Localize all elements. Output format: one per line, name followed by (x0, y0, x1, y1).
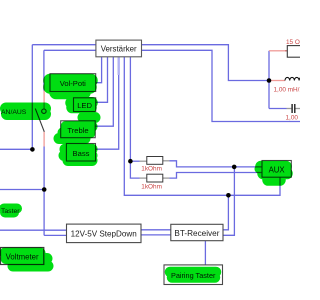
highlight Treble (59, 118, 95, 139)
pin stub capacitor left gray (287, 108, 292, 110)
module Voltmeter box (1, 248, 44, 265)
pin stub 15 Ohm resistor (285, 50, 287, 52)
wire Verstärker right pin2 to speaker line (142, 50, 301, 121)
pin stub R2 left gray (140, 177, 147, 179)
wire Verstärker pin-b to LED (96, 57, 108, 103)
svg-text:Verstärker: Verstärker (101, 45, 137, 54)
wire R2 to AUX lower pin (170, 173, 263, 179)
green highlighter annotations (4, 81, 287, 278)
wire to StepDown left pin2 (44, 234, 66, 236)
svg-text:12V-5V StepDown: 12V-5V StepDown (71, 230, 137, 239)
svg-text:1kOhm: 1kOhm (141, 166, 162, 173)
wire switch to StepDown vertical (43, 147, 45, 236)
wire node stub left at y149 (0, 148, 32, 150)
node A junction dot (32,149) (30, 147, 35, 152)
wire R1 to AUX upper pin (170, 161, 263, 167)
highlight Bass (64, 149, 92, 160)
highlight AUX (261, 167, 287, 181)
module BT-Receiver box (171, 224, 223, 240)
wire node down to R2 left (130, 161, 139, 178)
wire Verstärker pin-d to Bass (96, 57, 119, 149)
svg-text:15 Ohm: 15 Ohm (286, 39, 300, 46)
wire crossover vertical bus (268, 51, 270, 109)
highlight Taster (4, 209, 17, 213)
pin stub R1 left gray (140, 160, 147, 162)
pin stub R2 right gray (163, 177, 170, 179)
capacitor C1 1,00 µF (286, 104, 308, 121)
highlight AN/AUS (6, 109, 45, 115)
module 12V-5V StepDown box (67, 224, 142, 243)
node F junction dot crossover (269,80) (267, 78, 272, 83)
op-amp U1 Verstärker box (96, 40, 142, 57)
highlight Pairing Taster (170, 272, 216, 278)
wire Verstärker left pin1 horizontal (32, 44, 96, 46)
potentiometer Bass box (66, 144, 95, 162)
wire StepDown to BT-Receiver upper (141, 229, 171, 231)
highlight Voltmeter (5, 253, 48, 266)
wire to capacitor (269, 108, 287, 110)
wire red to 15 Ohm resistor (269, 50, 285, 52)
wire Verstärker pin-c to Treble (95, 57, 113, 126)
resistor R2 1kOhm (141, 174, 163, 190)
svg-text:1,00 mH/1: 1,00 mH/1 (274, 87, 301, 94)
wire Verstärker pin-a to Vol-Poti right (96, 57, 102, 83)
node C junction dot resistors (130,161) (128, 159, 133, 164)
switch S1 AN/AUS (35, 109, 46, 132)
inductor L1 1,00 mH (274, 77, 304, 93)
highlight LED (71, 103, 92, 108)
wire node to R1 left (130, 160, 139, 162)
wire Verstärker pin-f to resistors (129, 57, 131, 161)
node E junction dot AUX line (234,167) (232, 165, 237, 170)
svg-text:1kOhm: 1kOhm (141, 184, 162, 191)
wire red to inductor (271, 80, 285, 82)
wire red switch bottom segment (43, 132, 45, 147)
potentiometer Treble box (61, 121, 95, 138)
resistor R1 1kOhm (141, 157, 163, 173)
svg-text:1,00 µF: 1,00 µF (286, 114, 301, 121)
wire StepDown to BT-Receiver lower (141, 234, 171, 236)
resistor R3 15 Ohm (286, 39, 309, 57)
module AUX box (262, 161, 291, 178)
potentiometer Vol-Poti box (50, 74, 96, 92)
highlight Vol-Poti (50, 81, 91, 93)
wire BT-Receiver to Pairing Taster (204, 241, 206, 265)
wire rail branch down to BT right pin1 (223, 195, 228, 230)
button Pairing Taster box (164, 265, 223, 285)
pin stub capacitor right gray (295, 108, 300, 110)
wire Taster horizontal (0, 189, 44, 191)
wire Verstärker pin-e bottom rail to AUX (124, 57, 280, 196)
wire Verstärker right pin1 to crossover (142, 45, 270, 81)
svg-text:BT-Receiver: BT-Receiver (174, 229, 219, 238)
node B junction dot Taster (44,190) (42, 187, 47, 192)
wire pale overlay near Verstärker pin-d (117, 57, 119, 75)
wire AUX line branch down to BT right pin2 (223, 167, 234, 235)
pin stub R1 right gray (163, 160, 170, 162)
node D junction dot rail (228,195) (226, 193, 231, 198)
wire StepDown left pin1 from edge (0, 229, 67, 231)
wire left pin1 vertical down (31, 45, 33, 150)
LED D1 box (74, 98, 96, 112)
wire left pin2 vertical to Vol-Poti (43, 50, 45, 90)
wire Verstärker left pin2 horizontal (44, 49, 96, 51)
wire red Vol-Poti to switch (43, 91, 45, 110)
highlight AUX left tab (259, 165, 263, 174)
